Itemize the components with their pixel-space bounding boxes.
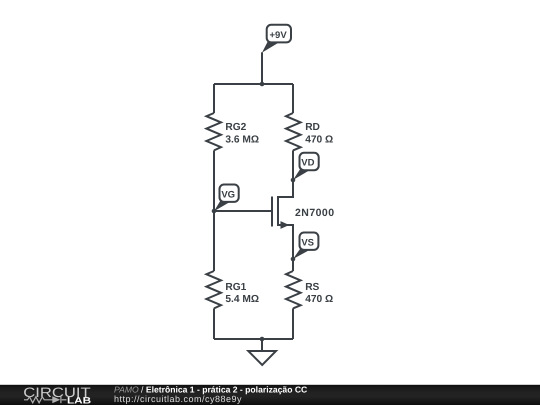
svg-text:2N7000: 2N7000: [295, 207, 334, 219]
svg-text:VG: VG: [221, 190, 235, 201]
svg-text:http://circuitlab.com/cy88e9y: http://circuitlab.com/cy88e9y: [114, 394, 242, 404]
svg-text:470 Ω: 470 Ω: [305, 134, 333, 145]
svg-text:5.4 MΩ: 5.4 MΩ: [225, 294, 259, 305]
svg-text:RG1: RG1: [225, 282, 246, 293]
svg-text:+9V: +9V: [270, 30, 288, 41]
svg-text:RG2: RG2: [225, 122, 246, 133]
svg-text:VD: VD: [301, 158, 314, 169]
svg-text:VS: VS: [301, 237, 314, 248]
svg-text:LAB: LAB: [67, 395, 92, 405]
svg-text:RD: RD: [305, 122, 320, 133]
svg-text:RS: RS: [305, 282, 319, 293]
svg-text:3.6 MΩ: 3.6 MΩ: [225, 134, 259, 145]
svg-text:470 Ω: 470 Ω: [305, 294, 333, 305]
